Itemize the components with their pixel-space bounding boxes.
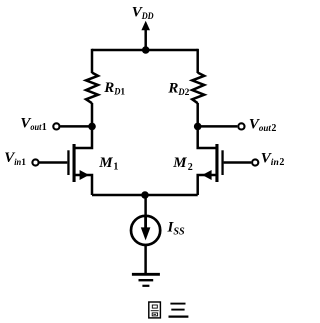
svg-text:Vout1: Vout1 <box>20 116 46 134</box>
svg-text:M2: M2 <box>172 155 193 173</box>
svg-text:RD1: RD1 <box>103 80 125 98</box>
svg-text:Vin1: Vin1 <box>4 150 26 168</box>
svg-text:RD2: RD2 <box>167 80 189 98</box>
svg-text:VDD: VDD <box>132 4 154 22</box>
svg-text:Vout2: Vout2 <box>249 117 277 135</box>
svg-text:ISS: ISS <box>167 220 186 238</box>
svg-text:M1: M1 <box>98 155 118 173</box>
svg-text:Vin2: Vin2 <box>261 151 285 169</box>
